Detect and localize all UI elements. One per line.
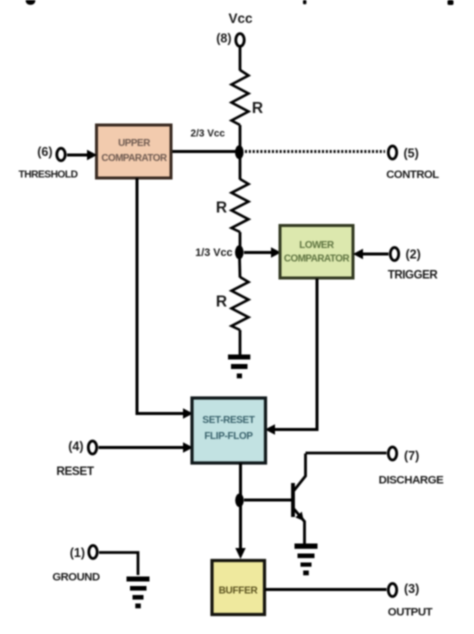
wire threshold to upper comparator <box>67 150 97 160</box>
net Vcc label <box>228 11 253 26</box>
label THRESHOLD <box>19 170 78 181</box>
svg-text:FLIP-FLOP: FLIP-FLOP <box>204 431 253 442</box>
wire node to R2 <box>239 157 242 180</box>
svg-text:(6): (6) <box>37 145 52 159</box>
wire junction to transistor base <box>244 499 292 502</box>
svg-text:GROUND: GROUND <box>52 572 100 584</box>
svg-text:BUFFER: BUFFER <box>219 586 259 597</box>
pin number (8) <box>216 32 231 46</box>
wire reset to flip-flop with arrow <box>99 442 194 452</box>
svg-text:1/3 Vcc: 1/3 Vcc <box>195 247 232 259</box>
pin number (4) <box>68 440 83 454</box>
wire node 1/3Vcc to R3 <box>238 257 241 278</box>
label TRIGGER <box>388 270 439 282</box>
transistor Q1 <box>293 454 306 544</box>
svg-text:(2): (2) <box>406 248 421 262</box>
svg-text:(1): (1) <box>70 546 85 560</box>
pin number (5) <box>404 147 419 161</box>
node label 1/3 Vcc <box>195 247 232 259</box>
junction node discharge <box>235 494 244 508</box>
svg-text:COMPARATOR: COMPARATOR <box>101 153 167 164</box>
label CONTROL <box>386 169 439 181</box>
pin 1 ground terminal <box>89 546 97 559</box>
wire flip-flop to buffer with arrow <box>235 463 245 559</box>
label GROUND <box>52 572 100 584</box>
junction node 1/3 Vcc <box>235 245 244 259</box>
svg-text:(7): (7) <box>404 449 419 463</box>
wire R3 to ground <box>239 330 242 355</box>
caption remnant tick (cut-off text at top middle) <box>303 0 306 4</box>
op-amp U1 upper comparator <box>97 125 172 178</box>
svg-text:CONTROL: CONTROL <box>386 169 439 181</box>
svg-text:DISCHARGE: DISCHARGE <box>379 475 445 487</box>
label DISCHARGE <box>379 475 445 487</box>
svg-text:R: R <box>216 294 227 311</box>
pin number (2) <box>406 248 421 262</box>
wire lower comparator to flip-flop with arrow <box>265 279 317 435</box>
svg-text:(8): (8) <box>216 32 231 46</box>
wire trigger to lower comparator with arrow <box>353 249 389 259</box>
node label 2/3 Vcc <box>191 129 226 140</box>
caption remnant mark (cut-off text at top right) <box>448 0 454 5</box>
resistor R2 <box>232 179 249 232</box>
svg-text:Vcc: Vcc <box>228 11 253 26</box>
svg-text:R: R <box>252 100 263 117</box>
wire ground pin to ground symbol <box>99 553 138 576</box>
resistor R3 <box>232 277 249 330</box>
wire buffer to output pin <box>265 588 387 591</box>
ground symbol under R3 <box>228 355 250 379</box>
label OUTPUT <box>388 607 433 619</box>
wire upper comparator to flip-flop with arrow <box>137 178 193 419</box>
pin 6 threshold terminal <box>57 148 65 160</box>
svg-text:SET-RESET: SET-RESET <box>202 415 254 426</box>
pin 7 discharge terminal <box>388 447 396 460</box>
svg-text:(3): (3) <box>404 582 419 596</box>
pin number (3) <box>404 582 419 596</box>
wire R2 to node 1/3Vcc <box>239 232 242 248</box>
svg-text:COMPARATOR: COMPARATOR <box>284 254 350 265</box>
wire collector to discharge pin <box>306 452 387 455</box>
svg-text:(5): (5) <box>404 147 419 161</box>
wire pin8 to R1 <box>239 47 242 71</box>
label RESET <box>56 464 95 478</box>
svg-text:THRESHOLD: THRESHOLD <box>19 170 78 181</box>
op-amp U2 lower comparator <box>280 226 353 279</box>
flip-flop U3 set-reset <box>192 398 266 463</box>
pin number (6) <box>37 145 52 159</box>
buffer U4 <box>212 561 265 615</box>
value label R (R3) <box>216 294 227 311</box>
pin 4 reset terminal <box>88 441 96 454</box>
ground symbol at emitter <box>295 544 318 576</box>
pin 2 trigger terminal <box>390 248 398 261</box>
svg-text:RESET: RESET <box>56 464 95 478</box>
pin 3 output terminal <box>388 584 396 597</box>
pin number (7) <box>404 449 419 463</box>
wire upper comparator output to node <box>170 150 238 153</box>
svg-text:UPPER: UPPER <box>118 138 150 149</box>
resistor R1 <box>232 70 249 125</box>
ground symbol at pin 1 <box>127 577 150 609</box>
junction node 2/3 Vcc <box>235 145 244 159</box>
pin number (1) <box>70 546 85 560</box>
svg-text:R: R <box>216 200 227 217</box>
svg-text:2/3 Vcc: 2/3 Vcc <box>191 129 226 140</box>
value label R (R1) <box>252 100 263 117</box>
svg-text:LOWER: LOWER <box>299 240 334 251</box>
pin 5 control terminal <box>388 146 396 159</box>
svg-text:OUTPUT: OUTPUT <box>388 607 433 619</box>
value label R (R2) <box>216 200 227 217</box>
pin 8 Vcc terminal <box>236 34 244 47</box>
dotted wire node to control pin <box>245 150 385 153</box>
svg-text:(4): (4) <box>68 440 83 454</box>
caption remnant blob (cut-off text at top left) <box>26 0 36 5</box>
wire node 1/3Vcc to lower comparator with arrow <box>244 247 281 257</box>
svg-text:TRIGGER: TRIGGER <box>388 270 439 282</box>
wire R1 to node 2/3Vcc <box>239 125 242 148</box>
